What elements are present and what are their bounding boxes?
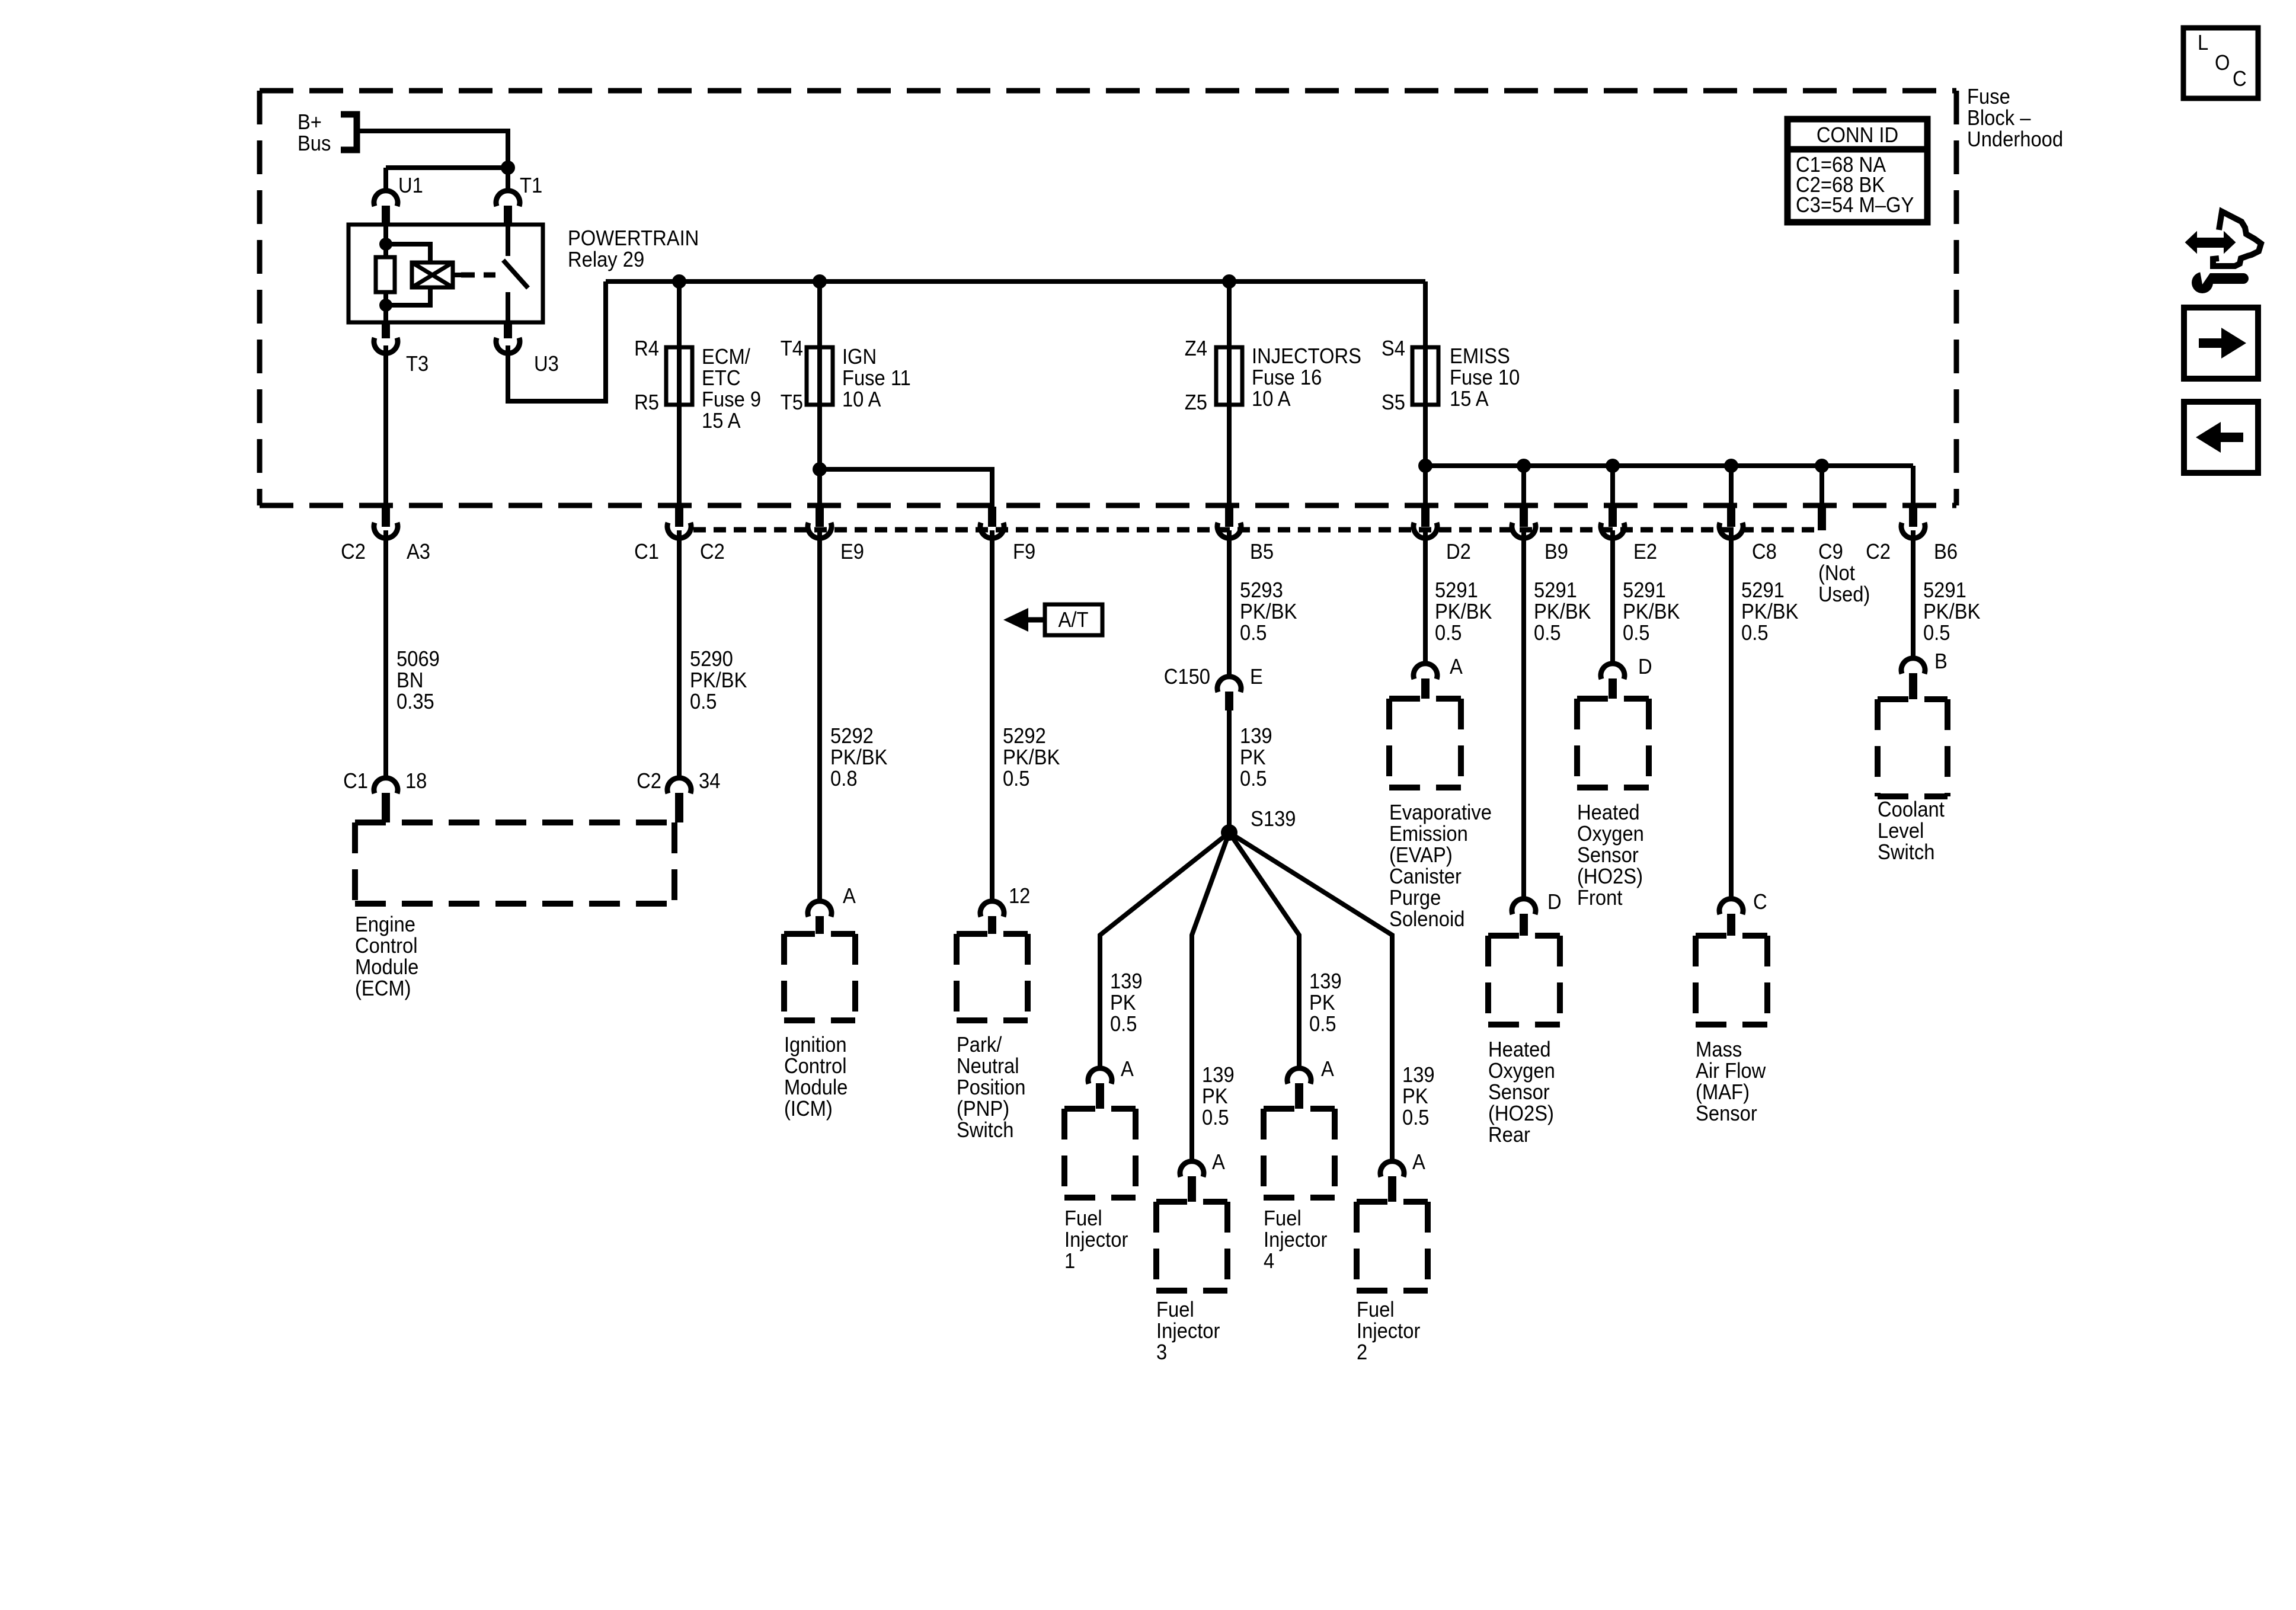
wire bus end to fuse10: [1423, 281, 1428, 508]
svg-text:Switch: Switch: [1878, 841, 1934, 865]
node branch junction C8: [1724, 459, 1738, 473]
svg-text:1: 1: [1064, 1250, 1075, 1273]
svg-text:0.5: 0.5: [1923, 622, 1950, 645]
node coil top junction: [379, 238, 392, 251]
svg-text:ECM/: ECM/: [702, 345, 750, 369]
pin stub ICM A: [816, 916, 824, 934]
svg-text:D2: D2: [1446, 540, 1471, 564]
connector cap U1: [374, 191, 398, 206]
component MAF box: [1696, 936, 1767, 1025]
svg-text:T4: T4: [781, 337, 803, 361]
svg-text:E9: E9: [840, 540, 864, 564]
node emiss branch start: [1418, 459, 1432, 473]
pin stub D2: [1421, 507, 1430, 527]
wire coil branch bottom: [386, 287, 430, 305]
svg-text:Air Flow: Air Flow: [1696, 1060, 1766, 1083]
svg-text:C2: C2: [341, 540, 366, 564]
svg-text:Sensor: Sensor: [1696, 1102, 1757, 1126]
svg-text:PK/BK: PK/BK: [690, 669, 747, 693]
svg-text:A/T: A/T: [1059, 609, 1089, 632]
connector bowl B5: [1217, 523, 1241, 538]
svg-text:Fuel: Fuel: [1264, 1207, 1302, 1231]
pin stub B9: [1520, 507, 1528, 527]
svg-text:Coolant: Coolant: [1878, 798, 1945, 822]
svg-text:T1: T1: [520, 174, 542, 198]
svg-text:PK: PK: [1309, 991, 1335, 1015]
wire 139 to injector1: [1100, 833, 1229, 1066]
svg-text:Position: Position: [957, 1076, 1026, 1100]
svg-text:R4: R4: [634, 337, 659, 361]
svg-text:Sensor: Sensor: [1577, 844, 1639, 868]
svg-text:Heated: Heated: [1488, 1038, 1551, 1062]
svg-text:0.5: 0.5: [1402, 1106, 1430, 1130]
svg-text:Sensor: Sensor: [1488, 1081, 1550, 1105]
svg-text:Used): Used): [1818, 583, 1870, 607]
svg-text:PK/BK: PK/BK: [1534, 600, 1591, 624]
connector bowl B9: [1512, 523, 1536, 538]
svg-text:(HO2S): (HO2S): [1488, 1102, 1554, 1126]
svg-text:(Not: (Not: [1818, 562, 1855, 585]
fuse block underhood dashed border: [260, 91, 1956, 505]
pin stub C150: [1225, 692, 1233, 710]
connector bowl D2: [1414, 523, 1437, 538]
A/T box: [1045, 604, 1102, 635]
svg-text:PK/BK: PK/BK: [1435, 600, 1492, 624]
svg-text:PK/BK: PK/BK: [1623, 600, 1680, 624]
svg-text:12: 12: [1009, 885, 1030, 908]
wire relay coil bottom: [383, 292, 388, 322]
wire switch pivot: [506, 225, 510, 256]
svg-text:Relay 29: Relay 29: [568, 248, 644, 272]
pin stub T1: [504, 206, 512, 225]
svg-text:U3: U3: [534, 353, 559, 376]
connector bowl C2: [667, 523, 691, 538]
wire coil to link: [453, 273, 463, 277]
svg-text:0.5: 0.5: [1309, 1013, 1336, 1036]
svg-text:5291: 5291: [1534, 579, 1577, 603]
svg-text:Fuel: Fuel: [1156, 1298, 1194, 1322]
pin stub C8: [1727, 507, 1735, 527]
svg-text:Switch: Switch: [957, 1119, 1013, 1142]
svg-text:0.5: 0.5: [1003, 767, 1030, 791]
node branch junction E2: [1606, 459, 1620, 473]
pin stub injector 4: [1295, 1083, 1303, 1109]
component Fuel Injector 4 box: [1264, 1109, 1335, 1198]
svg-text:Neutral: Neutral: [957, 1055, 1019, 1078]
svg-text:A: A: [1412, 1151, 1425, 1174]
connector cap C150 E: [1217, 677, 1241, 692]
connector C2 dotted line: [693, 527, 1817, 533]
svg-text:0.5: 0.5: [1435, 622, 1462, 645]
svg-text:139: 139: [1240, 725, 1272, 748]
pin stub 18: [382, 793, 390, 822]
connector bowl U3: [496, 338, 520, 353]
connector cap ICM A: [808, 901, 832, 917]
svg-text:Oxygen: Oxygen: [1488, 1060, 1555, 1083]
svg-text:Fuse: Fuse: [1967, 85, 2010, 109]
svg-text:Z4: Z4: [1185, 337, 1207, 361]
svg-text:0.35: 0.35: [396, 690, 434, 714]
wire 5291 C8: [1729, 530, 1734, 897]
wire bus to fuse16: [1227, 281, 1232, 508]
relay actuating link dashed: [461, 273, 495, 278]
svg-text:0.5: 0.5: [690, 690, 717, 714]
svg-text:Injector: Injector: [1357, 1320, 1420, 1343]
svg-text:34: 34: [699, 770, 720, 793]
svg-text:Block –: Block –: [1967, 107, 2031, 130]
wire 139 to injector2: [1229, 833, 1392, 1159]
component HO2S front box: [1577, 699, 1649, 788]
svg-text:C: C: [2233, 68, 2247, 91]
svg-text:PK: PK: [1110, 991, 1136, 1015]
svg-text:0.5: 0.5: [1202, 1106, 1229, 1130]
svg-text:3: 3: [1156, 1341, 1167, 1365]
wire 5291 B6: [1911, 530, 1916, 656]
svg-text:A: A: [1121, 1058, 1134, 1081]
svg-text:C150: C150: [1164, 665, 1210, 689]
svg-text:C1: C1: [634, 540, 659, 564]
svg-text:0.5: 0.5: [1741, 622, 1769, 645]
connector cap HO2S front D: [1601, 664, 1625, 679]
pin stub F9: [988, 507, 996, 527]
svg-text:(PNP): (PNP): [957, 1097, 1009, 1121]
svg-text:139: 139: [1110, 970, 1143, 994]
svg-text:18: 18: [405, 770, 427, 793]
wire 139 to injector4: [1229, 833, 1299, 1066]
svg-text:5291: 5291: [1923, 579, 1966, 603]
svg-text:U1: U1: [398, 174, 423, 198]
svg-text:Control: Control: [784, 1055, 847, 1078]
svg-text:2: 2: [1357, 1341, 1367, 1365]
svg-text:E: E: [1250, 665, 1263, 689]
connector cap injector 3: [1180, 1161, 1204, 1177]
svg-text:(ECM): (ECM): [355, 977, 411, 1001]
connector bowl A3: [374, 523, 398, 538]
wire bus to fuse11: [817, 281, 822, 508]
connector cap MAF C: [1719, 899, 1743, 914]
wire switch contact bottom: [506, 292, 510, 322]
node bus junction IGN fuse: [813, 274, 827, 289]
svg-text:(MAF): (MAF): [1696, 1081, 1750, 1105]
svg-text:PK/BK: PK/BK: [1741, 600, 1799, 624]
svg-text:5291: 5291: [1435, 579, 1478, 603]
pin stub MAF: [1727, 914, 1735, 936]
svg-text:Injector: Injector: [1156, 1320, 1220, 1343]
svg-text:BN: BN: [396, 669, 423, 693]
node coil bottom junction: [379, 299, 392, 312]
connector cap injector 1: [1088, 1068, 1112, 1084]
component Fuel Injector 3 box: [1156, 1202, 1227, 1291]
svg-text:POWERTRAIN: POWERTRAIN: [568, 227, 699, 251]
pin stub injector 1: [1096, 1083, 1104, 1109]
svg-text:Front: Front: [1577, 886, 1623, 910]
connector cap EVAP A: [1414, 664, 1437, 679]
svg-text:0.8: 0.8: [830, 767, 858, 791]
svg-text:0.5: 0.5: [1240, 622, 1267, 645]
fuse F16 INJECTORS: [1216, 347, 1242, 405]
svg-text:C8: C8: [1752, 540, 1777, 564]
connector cap injector 2: [1380, 1161, 1404, 1177]
pin stub T3: [382, 322, 390, 338]
svg-text:S139: S139: [1251, 808, 1296, 831]
svg-text:4: 4: [1264, 1250, 1274, 1273]
svg-text:Fuse 11: Fuse 11: [842, 367, 911, 391]
fuse F11 IGN: [807, 347, 833, 405]
svg-text:10 A: 10 A: [842, 388, 881, 412]
wire U3 to fuse bus: [508, 281, 606, 401]
connector cap HO2S rear D: [1512, 899, 1536, 914]
svg-text:Rear: Rear: [1488, 1124, 1530, 1147]
wire B+ to relay T1: [357, 131, 508, 168]
svg-text:5293: 5293: [1240, 579, 1283, 603]
wire 5292 PK/BK 0.5: [990, 530, 994, 899]
component coolant level switch box: [1878, 699, 1948, 796]
svg-text:T3: T3: [406, 353, 428, 376]
svg-text:Oxygen: Oxygen: [1577, 822, 1644, 846]
wire 5293 PK/BK: [1227, 530, 1232, 674]
svg-text:A3: A3: [407, 540, 430, 564]
svg-text:C1: C1: [343, 770, 368, 793]
svg-text:Park/: Park/: [957, 1033, 1002, 1057]
svg-text:PK/BK: PK/BK: [1240, 600, 1297, 624]
svg-text:(EVAP): (EVAP): [1389, 844, 1453, 868]
svg-text:CONN ID: CONN ID: [1817, 124, 1898, 148]
table CONN ID: [1787, 119, 1927, 222]
svg-text:Control: Control: [355, 934, 418, 958]
svg-text:5292: 5292: [1003, 725, 1046, 748]
B+ bus bar symbol: [341, 114, 357, 150]
svg-text:S5: S5: [1382, 391, 1405, 415]
svg-text:Injector: Injector: [1064, 1228, 1128, 1252]
svg-text:5291: 5291: [1741, 579, 1785, 603]
node branch junction B9: [1517, 459, 1531, 473]
icon LOC box: [2183, 28, 2258, 98]
module ECM box: [355, 822, 674, 904]
resistor relay internal: [376, 257, 395, 292]
svg-text:5290: 5290: [690, 648, 733, 671]
component Fuel Injector 1 box: [1064, 1109, 1136, 1198]
svg-text:R5: R5: [634, 391, 659, 415]
svg-text:F9: F9: [1013, 540, 1035, 564]
svg-text:(ICM): (ICM): [784, 1097, 833, 1121]
wire T3 down to border: [383, 345, 388, 508]
svg-text:Module: Module: [355, 956, 418, 980]
pin stub 34: [675, 793, 683, 822]
coil relay winding: [412, 263, 453, 287]
icon back arrow box: [2184, 402, 2258, 473]
pin stub injector 3: [1188, 1176, 1196, 1202]
svg-text:B5: B5: [1250, 540, 1274, 564]
pin stub HO2S front: [1609, 678, 1617, 699]
component EVAP solenoid box: [1389, 699, 1461, 788]
svg-text:139: 139: [1402, 1064, 1435, 1087]
svg-text:PK/BK: PK/BK: [1923, 600, 1981, 624]
fuse F10 EMISS: [1412, 347, 1438, 405]
node junction E9/F9 split: [813, 462, 827, 476]
icon service tool (double arrow, hood outline, wrench): [2193, 238, 2228, 248]
svg-text:0.5: 0.5: [1623, 622, 1650, 645]
pin stub U1: [382, 206, 390, 225]
svg-text:15 A: 15 A: [702, 409, 741, 433]
svg-text:Fuse 9: Fuse 9: [702, 388, 761, 412]
node branch junction C9: [1815, 459, 1829, 473]
relay POWERTRAIN Relay 29 box: [348, 225, 543, 322]
svg-text:Injector: Injector: [1264, 1228, 1327, 1252]
pin stub E2: [1609, 507, 1617, 527]
svg-text:B+: B+: [298, 111, 322, 135]
connector bowl T3: [374, 338, 398, 353]
svg-text:Fuel: Fuel: [1064, 1207, 1102, 1231]
svg-text:C9: C9: [1818, 540, 1843, 564]
svg-text:139: 139: [1202, 1064, 1235, 1087]
svg-text:Mass: Mass: [1696, 1038, 1742, 1062]
connector bowl B6: [1901, 523, 1925, 538]
svg-text:Engine: Engine: [355, 913, 415, 937]
wire branch to F9: [820, 469, 992, 508]
wire fuse supply bus: [606, 279, 1425, 284]
wire 5291 B9: [1521, 530, 1526, 897]
component HO2S rear box: [1488, 936, 1560, 1025]
pin stub B6: [1909, 507, 1917, 527]
svg-text:Level: Level: [1878, 820, 1924, 843]
icon forward arrow box: [2184, 308, 2258, 379]
connector cap coolant B: [1901, 658, 1925, 674]
svg-text:S4: S4: [1382, 337, 1405, 361]
connector bowl E9: [808, 523, 832, 538]
svg-text:D: D: [1547, 891, 1562, 914]
switch PNP box: [957, 934, 1028, 1020]
pin stub coolant: [1909, 673, 1917, 699]
svg-text:Z5: Z5: [1185, 391, 1207, 415]
svg-text:Underhood: Underhood: [1967, 128, 2063, 152]
pin stub injector 2: [1388, 1176, 1396, 1202]
wire 5292 PK/BK 0.8: [817, 530, 822, 899]
wire 5290 PK/BK: [677, 530, 682, 776]
svg-text:O: O: [2215, 52, 2230, 75]
wire branch to C8: [1729, 466, 1734, 508]
connector bowl E2: [1601, 523, 1625, 538]
svg-text:PK: PK: [1402, 1085, 1428, 1109]
wire T1 drop: [506, 168, 510, 188]
wire bus to fuse9: [677, 281, 682, 508]
pin stub E9: [816, 507, 824, 527]
connector bowl F9: [980, 523, 1004, 538]
pin stub C9 not used: [1818, 507, 1826, 530]
wire branch to C9: [1819, 466, 1824, 508]
svg-text:ETC: ETC: [702, 367, 740, 391]
fuse F9 ECM/ETC: [666, 347, 692, 405]
module ICM box: [784, 934, 855, 1020]
svg-text:EMISS: EMISS: [1450, 345, 1510, 369]
svg-text:5069: 5069: [396, 648, 440, 671]
svg-text:B: B: [1934, 650, 1948, 674]
svg-text:Emission: Emission: [1389, 822, 1468, 846]
svg-text:C2: C2: [637, 770, 661, 793]
svg-text:5291: 5291: [1623, 579, 1666, 603]
svg-text:10 A: 10 A: [1252, 388, 1291, 411]
icon wrench: [2192, 272, 2213, 293]
component Fuel Injector 2 box: [1357, 1202, 1428, 1291]
wire branch to U1: [386, 165, 508, 170]
connector cap pin34: [667, 778, 691, 793]
svg-text:C2: C2: [1866, 540, 1891, 564]
svg-text:Ignition: Ignition: [784, 1033, 847, 1057]
svg-text:A: A: [1450, 655, 1463, 679]
node junction B+ feed: [501, 161, 515, 175]
svg-text:139: 139: [1309, 970, 1342, 994]
svg-text:Module: Module: [784, 1076, 848, 1100]
svg-text:IGN: IGN: [842, 345, 877, 369]
pin stub HO2S rear: [1520, 914, 1528, 936]
wire branch to B6: [1911, 466, 1916, 508]
connector cap PNP 12: [980, 901, 1004, 917]
svg-text:PK/BK: PK/BK: [830, 746, 888, 770]
wire 139 to injector3: [1192, 833, 1229, 1159]
svg-text:T5: T5: [781, 391, 803, 415]
pin stub B5: [1225, 507, 1233, 527]
svg-text:PK/BK: PK/BK: [1003, 746, 1060, 770]
svg-text:0.5: 0.5: [1240, 767, 1267, 791]
svg-text:Fuse 16: Fuse 16: [1252, 366, 1322, 390]
wire 5291 E2: [1610, 530, 1615, 661]
svg-text:5292: 5292: [830, 725, 874, 748]
svg-text:INJECTORS: INJECTORS: [1252, 345, 1361, 369]
wire branch to B9: [1521, 466, 1526, 508]
svg-text:A: A: [1321, 1058, 1334, 1081]
A/T applicability arrow: [1003, 608, 1028, 632]
connector bowl C8: [1719, 523, 1743, 538]
pin stub EVAP A: [1421, 678, 1430, 699]
svg-text:Canister: Canister: [1389, 865, 1462, 889]
svg-text:C3=54 M–GY: C3=54 M–GY: [1796, 194, 1914, 217]
connector cap pin18: [374, 778, 398, 793]
node bus junction INJ fuse: [1222, 274, 1236, 289]
svg-text:B9: B9: [1544, 540, 1568, 564]
svg-text:D: D: [1638, 655, 1652, 679]
svg-text:Solenoid: Solenoid: [1389, 908, 1464, 932]
svg-text:Bus: Bus: [298, 132, 331, 156]
pin stub U3: [504, 322, 512, 338]
wire 139 PK to splice: [1227, 710, 1232, 833]
svg-text:C2: C2: [700, 540, 725, 564]
pin stub C2: [675, 507, 683, 527]
svg-text:L: L: [2198, 31, 2208, 55]
svg-text:PK: PK: [1202, 1085, 1228, 1109]
connector cap T1: [496, 191, 520, 206]
wire switch blade: [503, 260, 528, 288]
svg-text:(HO2S): (HO2S): [1577, 865, 1643, 889]
wire 5291 D2: [1423, 530, 1428, 661]
splice S139: [1221, 824, 1237, 841]
svg-text:Purge: Purge: [1389, 886, 1441, 910]
svg-text:E2: E2: [1633, 540, 1657, 564]
connector cap injector 4: [1287, 1068, 1311, 1084]
svg-text:0.5: 0.5: [1534, 622, 1561, 645]
svg-text:Fuse 10: Fuse 10: [1450, 366, 1520, 390]
wire relay coil top: [383, 225, 388, 257]
svg-text:15 A: 15 A: [1450, 388, 1489, 411]
svg-text:C: C: [1753, 891, 1767, 914]
wire branch to E2: [1610, 466, 1615, 508]
svg-text:B6: B6: [1934, 540, 1958, 564]
svg-text:Fuel: Fuel: [1357, 1298, 1395, 1322]
svg-text:A: A: [1212, 1151, 1225, 1174]
wire emiss distribution branch: [1425, 463, 1913, 468]
pin stub PNP 12: [988, 916, 996, 934]
wire 5069 BN: [383, 530, 388, 776]
wire U1 drop: [383, 168, 388, 188]
svg-text:PK: PK: [1240, 746, 1266, 770]
